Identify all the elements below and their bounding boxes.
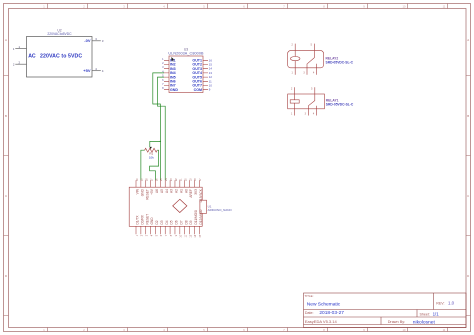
U1 bottom pin stubs [136, 226, 199, 234]
svg-text:Drawn By:: Drawn By: [388, 320, 406, 324]
svg-text:D8: D8 [184, 220, 188, 224]
U3 left pin stubs [164, 60, 169, 89]
svg-text:Sheet:: Sheet: [420, 312, 430, 316]
U2 pin 4 [92, 70, 101, 72]
svg-text:+5V: +5V [83, 68, 91, 73]
wire branch to R1 wiper [150, 141, 161, 147]
RELAY1 top pin stubs [295, 87, 315, 94]
svg-text:AC: AC [28, 53, 36, 59]
RELAY2 switch common line [307, 51, 314, 64]
svg-text:2018-03-27: 2018-03-27 [319, 310, 344, 316]
svg-text:+5V: +5V [150, 188, 154, 195]
svg-text:220VACto5VDC: 220VACto5VDC [47, 32, 72, 36]
ULN2003A U3 [168, 48, 204, 93]
RELAY1 contact lines [308, 106, 316, 109]
title block REV divider [432, 293, 434, 310]
svg-text:RESET: RESET [145, 189, 149, 200]
svg-text:D0/RX: D0/RX [140, 214, 144, 224]
svg-text:C: C [5, 194, 7, 198]
mouse cursor arrow [171, 57, 174, 61]
svg-text:A4: A4 [165, 189, 169, 193]
RELAY2 bottom pin stubs [295, 68, 317, 75]
RELAY2 top pin stubs [295, 44, 314, 51]
svg-text:SRD-05VDC-SL-C: SRD-05VDC-SL-C [326, 102, 354, 106]
svg-text:Date:: Date: [305, 311, 314, 315]
U2 body [27, 37, 93, 78]
svg-text:A0: A0 [184, 189, 188, 193]
R1 wiper arrow [150, 147, 152, 149]
RELAY1 bottom pin stubs [295, 109, 317, 116]
svg-text:1.0: 1.0 [448, 301, 455, 306]
svg-text:New Schematic: New Schematic [307, 301, 341, 307]
svg-text:D2: D2 [155, 220, 159, 224]
svg-text:D: D [467, 274, 469, 278]
wire IN5 to arduino [158, 77, 166, 180]
RELAY1 body [288, 94, 325, 109]
RELAY2 pin numbers [292, 45, 316, 75]
svg-text:D5: D5 [170, 220, 174, 224]
svg-text:ARDUINO_NANO: ARDUINO_NANO [208, 208, 233, 212]
svg-text:D1/TX: D1/TX [136, 215, 140, 225]
wire IN4 to junction (net to R1 wiper / arduino) [153, 73, 164, 180]
svg-text:D13/SCK: D13/SCK [199, 188, 203, 202]
svg-text:B: B [5, 114, 7, 118]
right border ticks [466, 76, 471, 316]
svg-text:D3: D3 [160, 220, 164, 224]
U1 top pin stubs [136, 180, 199, 187]
svg-text:B: B [467, 114, 469, 118]
svg-text:1/1: 1/1 [433, 311, 440, 316]
RELAY2 body [288, 51, 324, 68]
U2 pin 1 [15, 48, 26, 50]
title block horizontal divider 1 [304, 309, 467, 311]
svg-text:-0V: -0V [84, 38, 91, 43]
title block horizontal divider 2 [304, 316, 467, 318]
svg-text:TITLE:: TITLE: [305, 294, 314, 298]
svg-text:A: A [467, 38, 469, 42]
svg-text:D9: D9 [189, 220, 193, 224]
RELAY1 coil rectangle [290, 100, 299, 103]
svg-text:COM: COM [194, 88, 202, 92]
svg-text:D7: D7 [179, 220, 183, 224]
AC-DC converter U2 [13, 28, 104, 77]
RELAY2 contact lines [307, 64, 317, 68]
RELAY2 coil ellipse [290, 57, 300, 61]
wire R1 left to arduino [141, 150, 145, 180]
wire junction dot [160, 141, 161, 142]
svg-text:A: A [5, 38, 7, 42]
R1 zigzag body [145, 148, 158, 152]
svg-text:ULN2003A_C8000B: ULN2003A_C8000B [168, 52, 204, 56]
svg-text:A2: A2 [175, 189, 179, 193]
svg-text:220VAC to 5VDC: 220VAC to 5VDC [40, 53, 82, 59]
title block Sheet divider [416, 310, 418, 318]
svg-text:3V3: 3V3 [194, 189, 198, 195]
wire R1 right staircase to arduino [150, 150, 159, 180]
svg-text:SRD-05VDC-SL-C: SRD-05VDC-SL-C [326, 60, 354, 64]
svg-text:nikolosnet: nikolosnet [413, 319, 436, 325]
svg-text:A6: A6 [155, 189, 159, 193]
relay RELAY2 [288, 44, 354, 75]
svg-text:D: D [5, 274, 7, 278]
Arduino Nano U1 [129, 187, 232, 226]
U3 body [169, 56, 203, 93]
bottom border ticks [48, 328, 448, 332]
svg-text:RESET: RESET [145, 214, 149, 225]
title block DrawnBy divider [304, 317, 467, 325]
U1 diamond logo [173, 199, 187, 212]
svg-text:A3: A3 [170, 189, 174, 193]
RELAY1 switch common line [308, 94, 315, 106]
svg-text:REV:: REV: [436, 302, 444, 306]
U1 usb connector rect [200, 200, 207, 213]
RELAY1 coil vertical line [294, 94, 296, 109]
svg-text:GND: GND [140, 188, 144, 196]
svg-text:D12/MISO: D12/MISO [199, 209, 203, 224]
U2 pin 3 [92, 40, 101, 42]
svg-text:C: C [467, 194, 469, 198]
svg-text:D6: D6 [175, 220, 179, 224]
svg-text:EasyEDA V5.3.14: EasyEDA V5.3.14 [305, 319, 338, 324]
U1 body [129, 187, 202, 226]
svg-text:GND: GND [170, 88, 178, 92]
svg-text:GND: GND [150, 217, 154, 225]
svg-text:A1: A1 [179, 189, 183, 193]
potentiometer R1 [145, 147, 158, 160]
U2 pin 2 [15, 63, 26, 65]
left border ticks [4, 76, 9, 316]
TITLE BLOCK [304, 293, 467, 328]
svg-text:VIN: VIN [136, 188, 140, 194]
svg-text:A5: A5 [160, 189, 164, 193]
RELAY1 pin numbers [291, 88, 315, 115]
U3 right pin stubs [203, 60, 208, 89]
relay RELAY1 [288, 87, 354, 115]
svg-text:AREF: AREF [189, 189, 193, 198]
RELAY2 coil vertical line [294, 51, 296, 68]
title block outline [304, 293, 467, 328]
svg-text:10k: 10k [149, 155, 154, 159]
svg-text:D11/MOSI: D11/MOSI [194, 210, 198, 225]
svg-text:D4: D4 [165, 220, 169, 224]
top border ticks [48, 4, 448, 9]
